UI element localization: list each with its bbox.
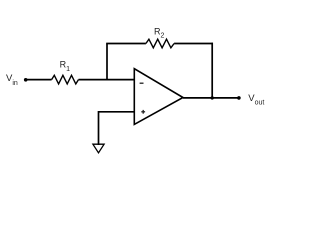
op-amp non-inverting pin mark [141,110,145,114]
op-amp U1 [134,69,183,125]
resistor R1 [52,75,79,84]
node Vin terminal dot [24,78,28,82]
wire Vin to R1 [26,79,52,81]
wire down to ground [98,111,100,145]
wire R2 to output branch [174,43,213,45]
wire op-amp output [183,97,239,99]
node Vout terminal dot [237,96,241,100]
op-amp inverting pin mark [140,82,144,84]
resistor R2 [146,39,174,48]
wire non-inverting input [99,111,135,113]
node A junction feedback branch [106,44,108,80]
svg-text:R1: R1 [60,60,71,73]
wire R1 to op-amp inverting input [79,79,135,81]
node junction feedback/output dot [211,96,214,99]
svg-text:R2: R2 [154,26,165,39]
wire feedback left to R2 [106,43,146,45]
svg-text:Vout: Vout [248,93,264,106]
ground [93,144,104,153]
wire feedback down to output [211,43,213,98]
svg-text:Vin: Vin [6,73,18,87]
